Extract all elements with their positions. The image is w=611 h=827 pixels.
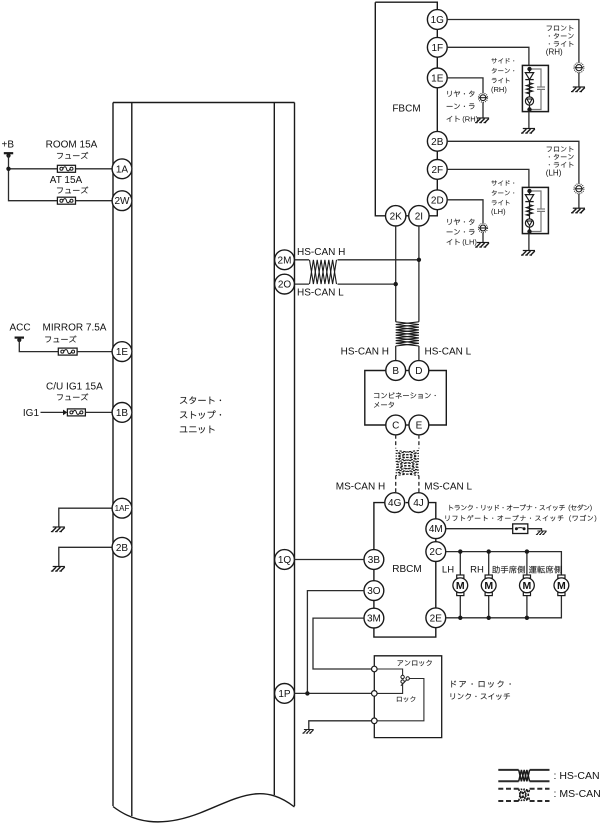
svg-text:2B: 2B (116, 543, 129, 554)
wire 2B to front turn light LH (447, 141, 579, 184)
svg-text:HS-CAN L: HS-CAN L (425, 347, 472, 358)
svg-text:2O: 2O (278, 280, 292, 291)
wire 1P to lock switch (294, 692, 371, 694)
lever (401, 680, 407, 686)
svg-text:2B: 2B (431, 137, 444, 148)
svg-text:FBCM: FBCM (392, 104, 420, 115)
svg-text:3B: 3B (368, 555, 381, 566)
svg-text:2I: 2I (415, 211, 423, 222)
svg-text:M: M (456, 580, 465, 592)
svg-text:(RH): (RH) (546, 48, 563, 57)
wire to 4G (395, 476, 397, 493)
wire to ROOM fuse (9, 168, 58, 170)
wire box to ground (528, 234, 530, 251)
contact unlock (401, 675, 404, 678)
terminal unlock (372, 666, 378, 672)
svg-text:4M: 4M (429, 524, 443, 535)
start-stop unit body (113, 103, 295, 822)
connector 2M (275, 250, 295, 270)
twisted pair symbol (309, 255, 338, 289)
wire to B (395, 346, 397, 361)
wire ACC to fuse (19, 340, 58, 352)
svg-text:C: C (392, 421, 399, 432)
battery terminal (4, 153, 13, 158)
ground (521, 129, 535, 134)
ground (571, 87, 585, 92)
svg-text:MS-CAN H: MS-CAN H (336, 482, 385, 493)
RBCM module (374, 503, 436, 637)
connector 2I (409, 206, 429, 226)
wire fuse to 1A (76, 168, 113, 170)
svg-text:1F: 1F (431, 43, 443, 54)
wire 2B to ground (59, 547, 112, 566)
ground (475, 118, 489, 123)
svg-text:2M: 2M (278, 255, 292, 266)
connector 1A (112, 159, 132, 179)
svg-text:ACC: ACC (10, 323, 31, 334)
connector 1E FBCM (427, 68, 447, 88)
wire 2E bus (446, 596, 562, 618)
FBCM module (375, 2, 437, 216)
bulb front turn RH (574, 63, 584, 73)
wire to 4J (418, 476, 420, 493)
motor M4 (554, 575, 569, 596)
connector 1E (112, 342, 132, 362)
bulb front turn LH (574, 184, 584, 194)
connector B (386, 361, 406, 381)
dashed twisted pair (396, 451, 419, 476)
ground (536, 531, 547, 535)
svg-text:RBCM: RBCM (392, 564, 421, 575)
legend HS-CAN (498, 769, 518, 771)
connector 2B FBCM (427, 131, 447, 151)
connector 2B (112, 537, 132, 557)
connector 4G (385, 493, 405, 513)
svg-text:MIRROR 7.5A: MIRROR 7.5A (43, 323, 107, 334)
svg-text:2D: 2D (431, 195, 444, 206)
ground (571, 208, 585, 213)
side turn light LH label (491, 180, 514, 185)
connector 2O (275, 274, 295, 294)
wire 1E to rear turn light RH (447, 78, 483, 93)
wire motor 2 drop (488, 552, 490, 575)
motor M1 (453, 575, 468, 596)
svg-text:IG1: IG1 (23, 408, 40, 419)
vertical twisted pair (396, 322, 419, 346)
trunk opener switch (513, 524, 528, 534)
door lock link switch box (374, 656, 441, 738)
connector 4J (409, 493, 429, 513)
ACC terminal (15, 338, 24, 343)
motor M2 (481, 575, 496, 596)
svg-text:D: D (415, 366, 422, 377)
wire to D (418, 346, 420, 361)
wire bulb to ground (482, 102, 484, 118)
connector 3M (364, 608, 384, 628)
connector D (409, 361, 429, 381)
wire 1Q to 3B (294, 559, 364, 561)
wire fuse to 1E (77, 351, 112, 353)
wire HS-CAN H 2M (294, 259, 419, 261)
junction HS-CAN L (394, 282, 398, 286)
connector 2F (427, 160, 447, 180)
wire 1AF to ground (59, 508, 112, 527)
svg-text:C/U IG1 15A: C/U IG1 15A (46, 382, 103, 393)
connector 2E (426, 608, 446, 628)
junction 1P/3O (305, 691, 309, 695)
wire bulb to ground (482, 233, 484, 243)
connector E (409, 415, 429, 435)
unit label (180, 396, 221, 404)
svg-text:4G: 4G (388, 498, 402, 509)
door lock link switch label (451, 681, 510, 688)
connector 3O (364, 581, 384, 601)
svg-text:LH: LH (442, 564, 454, 575)
svg-text:2E: 2E (430, 613, 443, 624)
junction HS-CAN H (417, 258, 421, 262)
svg-text:: HS-CAN: : HS-CAN (554, 770, 600, 782)
connector 4M (426, 519, 446, 539)
svg-text:: MS-CAN: : MS-CAN (554, 788, 601, 800)
connector 2W (112, 191, 132, 211)
svg-text:2F: 2F (431, 165, 443, 176)
wire MS-CAN from C (395, 435, 397, 449)
connector 3B (364, 550, 384, 570)
front turn light LH label (547, 146, 574, 152)
bulb rear turn LH (478, 223, 487, 232)
svg-text:B: B (392, 366, 399, 377)
wire IG1 to fuse with arrow (41, 411, 64, 413)
wire box to ground (528, 112, 530, 129)
wire fuse to 2W (76, 200, 113, 202)
connector 1P (275, 684, 295, 704)
ground (475, 243, 489, 248)
svg-text:E: E (416, 421, 423, 432)
svg-text:2W: 2W (115, 196, 131, 207)
svg-text:1P: 1P (278, 689, 291, 700)
connector 2K (386, 206, 406, 226)
svg-text:1Q: 1Q (278, 555, 292, 566)
wire 2I down (418, 226, 420, 322)
side turn light RH assembly (522, 65, 548, 111)
wire bulb to ground (578, 194, 580, 208)
wire 2F to side turn light LH (447, 169, 529, 187)
wire HS-CAN L 2O (294, 283, 395, 285)
svg-text:(LH): (LH) (491, 207, 506, 216)
svg-text:1G: 1G (431, 15, 445, 26)
svg-text:RH: RH (470, 564, 484, 575)
ground (302, 730, 313, 734)
side turn light LH assembly (522, 187, 548, 233)
wire 2D to rear turn light LH (447, 200, 483, 224)
svg-text:M: M (484, 580, 493, 592)
wire 2C bus (446, 552, 562, 575)
connector 1G (427, 10, 447, 30)
svg-text:1E: 1E (431, 73, 444, 84)
connector 1AF (112, 498, 132, 518)
switch internals (377, 669, 403, 675)
connector 2D (427, 190, 447, 210)
svg-text:M: M (557, 580, 566, 592)
svg-text:HS-CAN H: HS-CAN H (297, 247, 345, 258)
terminal common (372, 691, 378, 697)
svg-text:2K: 2K (390, 211, 403, 222)
common contact (406, 677, 409, 680)
ground (51, 567, 65, 572)
contact lock (401, 680, 404, 683)
front turn light RH label (547, 25, 574, 31)
svg-text:MS-CAN L: MS-CAN L (424, 482, 472, 493)
svg-text:1B: 1B (116, 408, 129, 419)
svg-text:HS-CAN L: HS-CAN L (297, 288, 344, 299)
svg-text:HS-CAN H: HS-CAN H (341, 347, 389, 358)
wire 3O down to 1P net (307, 591, 364, 694)
svg-text:4J: 4J (413, 498, 424, 509)
connector 1F (427, 37, 447, 57)
connector 1B (112, 403, 132, 423)
side turn light RH label (491, 58, 514, 63)
motor M3 (520, 575, 535, 596)
terminal lock (372, 718, 378, 724)
wire 3M to unlock terminal (313, 618, 372, 669)
connector 2C (426, 542, 446, 562)
rear turn light LH label (447, 219, 474, 225)
svg-text:(LH): (LH) (462, 238, 477, 247)
svg-text:M: M (523, 580, 532, 592)
svg-text:ROOM 15A: ROOM 15A (46, 140, 98, 151)
ground (51, 527, 65, 532)
svg-text:2C: 2C (429, 547, 442, 558)
svg-text:AT 15A: AT 15A (50, 175, 83, 186)
wire motor 3 drop (526, 552, 528, 575)
wire lock terminal to ground (309, 721, 372, 730)
wire 1F to side turn light RH (447, 47, 529, 65)
svg-text:1AF: 1AF (115, 504, 130, 513)
wire +B feed (9, 155, 58, 201)
bulb rear turn RH (478, 93, 487, 102)
connector 1Q (275, 550, 295, 570)
svg-text:3O: 3O (367, 586, 381, 597)
ground (521, 251, 535, 256)
wire 2K down (395, 226, 397, 322)
svg-text:(LH): (LH) (546, 169, 562, 178)
wire 1G to front turn light RH (447, 20, 579, 63)
wire bulb to ground (578, 73, 580, 87)
svg-text:(RH): (RH) (491, 85, 507, 94)
svg-text:1E: 1E (116, 347, 129, 358)
rear turn light RH label (447, 91, 474, 97)
wire motor 1 drop (459, 552, 461, 575)
svg-text:3M: 3M (367, 614, 381, 625)
wire 4M to opener switch (446, 528, 513, 530)
svg-text:1A: 1A (116, 164, 129, 175)
connector C (386, 415, 406, 435)
junction (6, 167, 10, 171)
wire fuse to 1B (85, 411, 112, 413)
wire MS-CAN from E (418, 435, 420, 449)
legend MS-CAN (498, 788, 518, 790)
svg-text:+B: +B (2, 140, 15, 151)
combination meter box (365, 371, 447, 426)
wire switch to ground (528, 529, 542, 531)
